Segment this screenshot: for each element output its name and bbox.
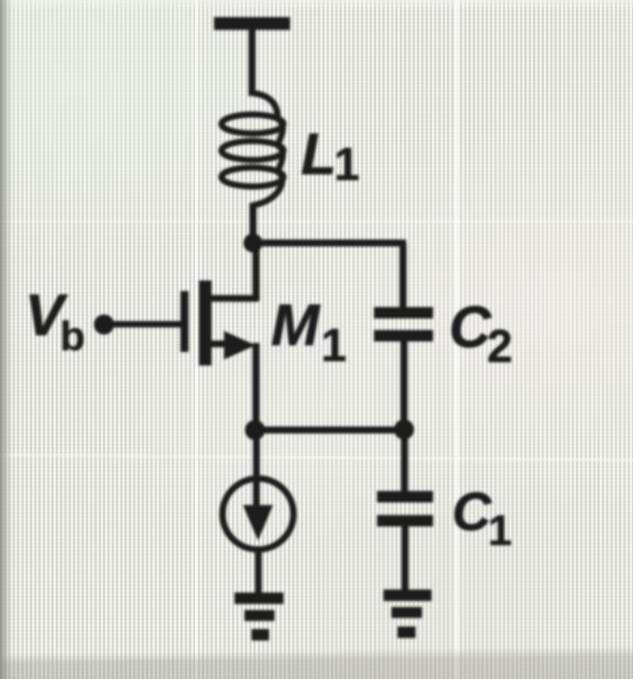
wire C1 to ground [402, 524, 409, 592]
capacitor C1 bottom plate [377, 515, 433, 527]
terminal Vb (dot) [94, 315, 114, 335]
wire C2 to lower node [401, 339, 408, 432]
wire drain node to C2 (top horizontal) [253, 240, 406, 247]
wire source riser to source node [253, 343, 260, 434]
node drain (dot) [244, 234, 263, 253]
wire lower node to C1 [401, 429, 408, 493]
node right lower (dot) [394, 420, 414, 440]
wire bottom horizontal [255, 427, 404, 434]
wire VDD to inductor [249, 28, 256, 96]
capacitor C2 top plate [374, 307, 433, 319]
node source (left dot) [245, 420, 265, 440]
ground right bar1 [384, 590, 432, 602]
transistor M1 channel bar [199, 281, 212, 366]
wire C2 vertical upper [400, 243, 407, 311]
current source arrow head [243, 505, 273, 541]
transistor M1 gate bar [181, 291, 189, 352]
svg-text:C: C [449, 295, 492, 360]
ground left bar1 [235, 593, 284, 605]
wire Vb to gate [104, 321, 183, 328]
capacitor C2 bottom plate [374, 330, 433, 342]
transistor M1 drain lead [205, 295, 258, 302]
VDD supply rail [214, 17, 290, 30]
ground left bar2 [245, 610, 275, 621]
svg-text:1: 1 [321, 319, 347, 371]
svg-text:1: 1 [488, 507, 512, 555]
current source I1 circle [223, 479, 294, 550]
wire source node to current source [253, 430, 260, 508]
ground right bar2 [392, 607, 423, 618]
wire current source to ground [255, 549, 262, 595]
ground right bar3 [398, 627, 416, 639]
svg-text:M: M [271, 293, 321, 358]
transistor M1 source arrow [224, 331, 256, 360]
svg-text:b: b [60, 313, 85, 359]
transistor M1 source lead [205, 341, 235, 348]
svg-text:L: L [301, 122, 336, 187]
ground left bar3 [252, 629, 270, 641]
capacitor C1 top plate [377, 491, 433, 503]
svg-text:C: C [452, 482, 492, 542]
wire inductor to drain node [250, 203, 257, 245]
wire drain riser [253, 243, 260, 301]
svg-text:1: 1 [334, 138, 360, 190]
inductor L1 [222, 93, 284, 206]
svg-text:2: 2 [487, 320, 513, 372]
